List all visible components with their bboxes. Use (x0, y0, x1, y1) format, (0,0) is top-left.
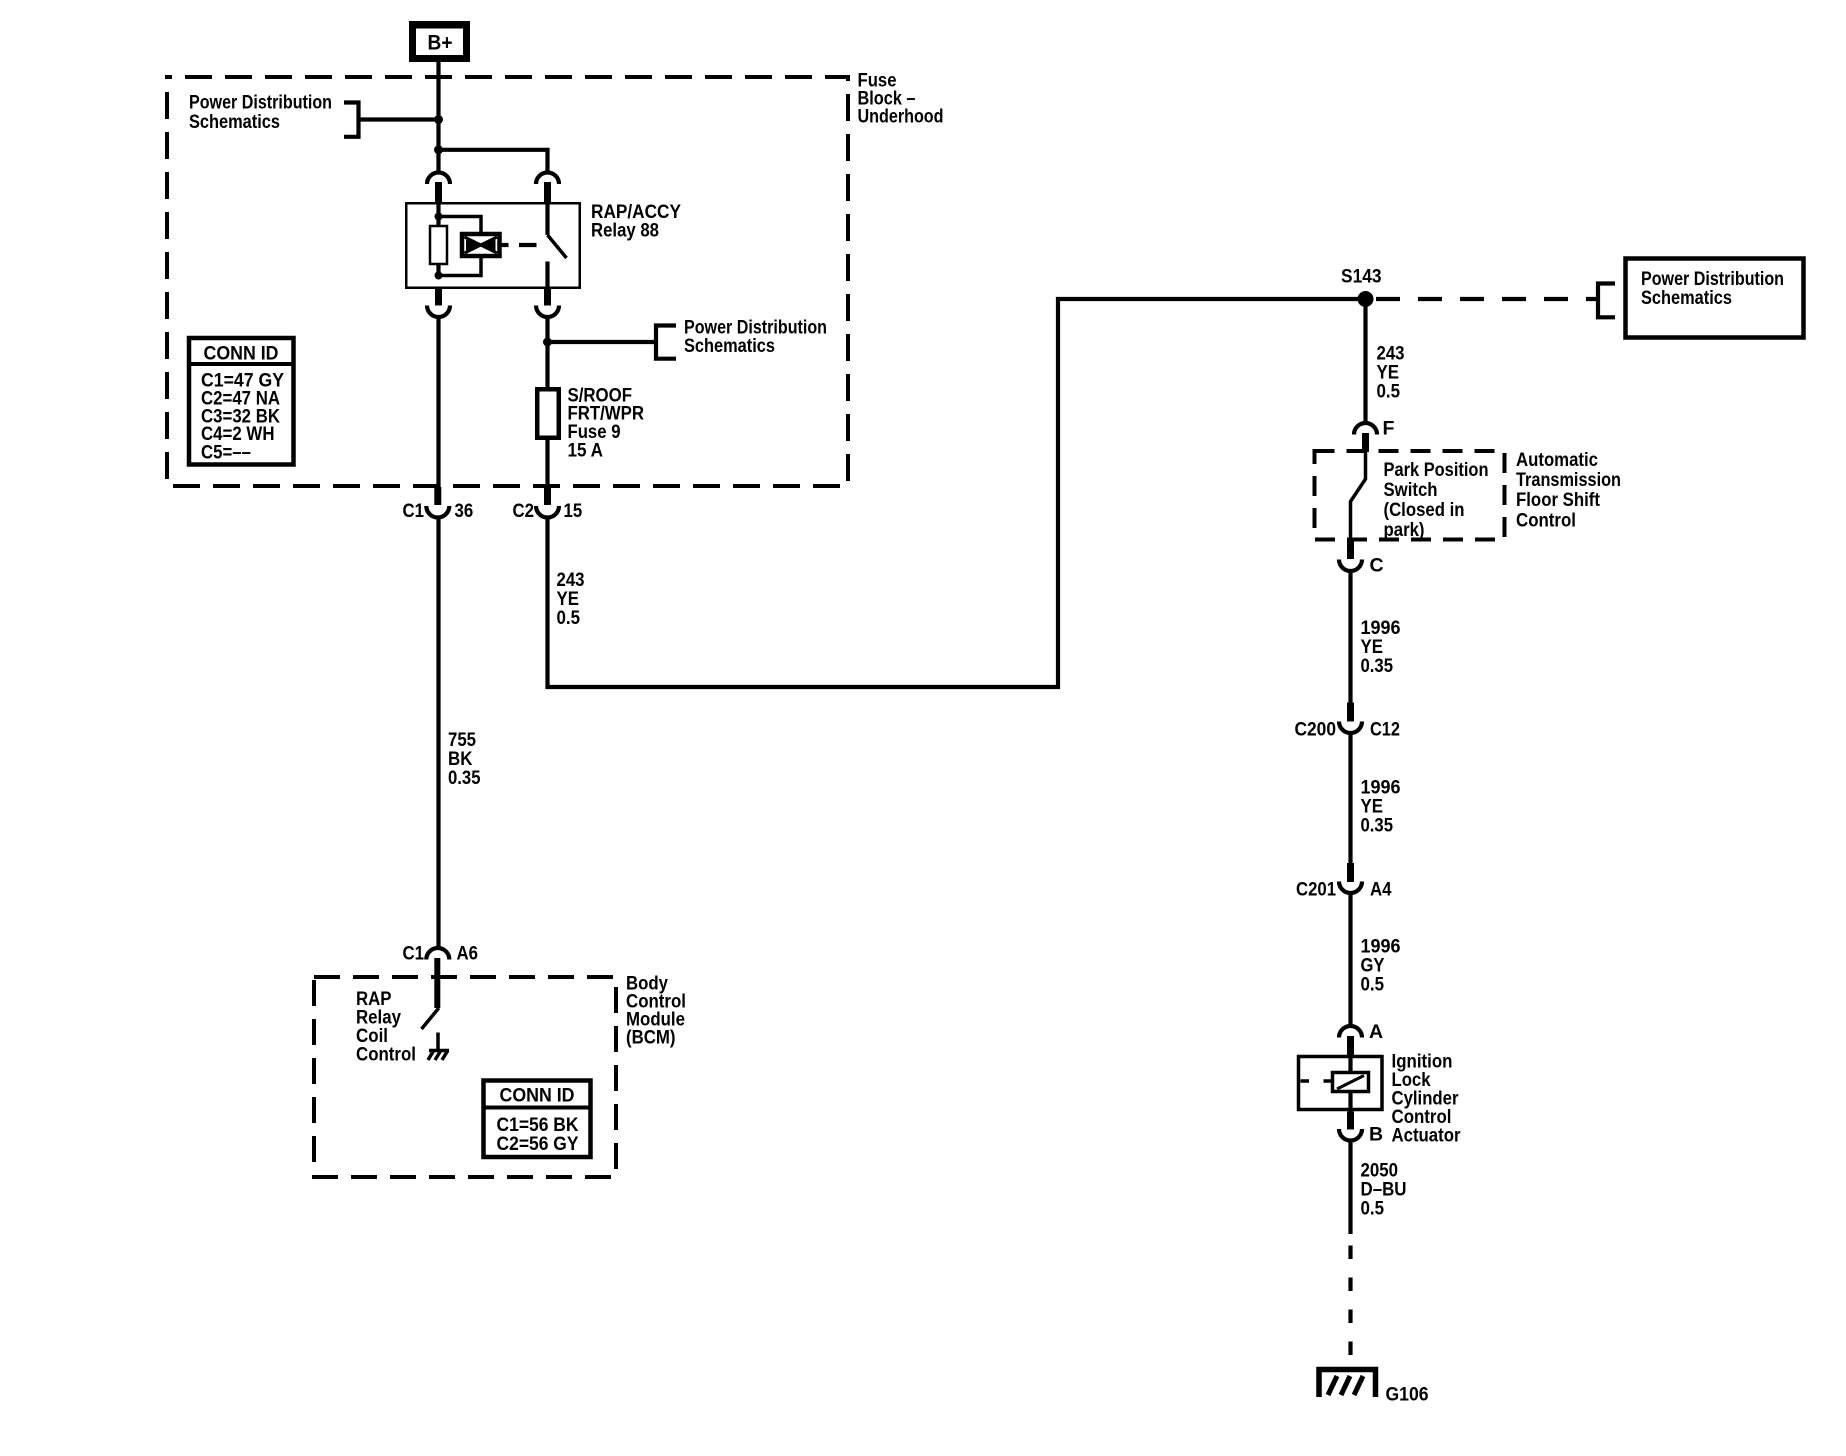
dashed wire to ground G106 (1348, 1246, 1352, 1370)
BCM dashed box (314, 977, 616, 1177)
svg-text:0.5: 0.5 (1361, 1198, 1385, 1220)
label fuse S/ROOF FRT/WPR Fuse 9 15 A (568, 385, 645, 462)
node branch junction (434, 145, 443, 154)
svg-text:F: F (1383, 418, 1395, 440)
connector A (1339, 1021, 1383, 1056)
svg-text:Relay 88: Relay 88 (591, 220, 659, 242)
wire to chassis ground BCM (436, 1033, 440, 1050)
label Park Position Switch (Closed in park) (1384, 459, 1489, 541)
svg-text:Floor Shift: Floor Shift (1516, 489, 1600, 511)
connector F (1354, 418, 1395, 453)
dashed reference wire from S143 (1376, 297, 1597, 301)
svg-text:0.5: 0.5 (1377, 381, 1401, 403)
wire 2050 D-BU below B (1348, 1140, 1352, 1234)
switch BCM rap relay driver blade (422, 1008, 439, 1029)
wire fuse to C2 (545, 440, 549, 488)
label wire 1996 YE 0.35 (upper) (1361, 617, 1401, 677)
label Fuse Block - Underhood (858, 70, 944, 128)
fuse block underhood dashed box (167, 77, 848, 486)
svg-text:C5=––: C5=–– (201, 442, 251, 464)
svg-text:A: A (1369, 1021, 1383, 1043)
wire C200 to C201 (1348, 733, 1352, 864)
switch relay contact (548, 202, 567, 289)
reference bracket Power Distribution Schematics (top left) (344, 103, 359, 137)
connector B (1339, 1112, 1383, 1146)
label wire 243 YE 0.5 (right) (1377, 343, 1405, 403)
label wire 1996 YE 0.35 (lower) (1361, 777, 1401, 837)
connector C2 pin 15 (513, 487, 583, 522)
svg-text:Transmission: Transmission (1516, 469, 1621, 491)
svg-text:0.5: 0.5 (557, 607, 581, 629)
svg-text:0.5: 0.5 (1361, 974, 1385, 996)
svg-text:Automatic: Automatic (1516, 449, 1598, 471)
reference bracket Power Distribution Schematics (mid) (656, 326, 676, 359)
node coil bottom junction (435, 272, 443, 280)
svg-text:Actuator: Actuator (1392, 1125, 1461, 1147)
label Body Control Module (BCM) (626, 973, 686, 1049)
wire C201 to actuator (1348, 893, 1352, 1026)
svg-text:C: C (1370, 555, 1384, 577)
svg-text:Control: Control (356, 1044, 416, 1066)
label Power Distribution Schematics (top left) (189, 92, 332, 134)
svg-text:B+: B+ (428, 32, 453, 55)
svg-text:0.35: 0.35 (1361, 815, 1394, 837)
connector C1 pin A6 (403, 943, 479, 1009)
reference bracket Power Distribution Schematics (right) (1598, 284, 1615, 318)
wire branch to relay pin 2 (439, 150, 548, 172)
svg-text:C2=56 GY: C2=56 GY (497, 1133, 579, 1155)
svg-text:Schematics: Schematics (1641, 287, 1732, 309)
ground chassis BCM (428, 1051, 449, 1061)
svg-text:C12: C12 (1370, 719, 1400, 741)
label wire 243 YE 0.5 (left) (557, 569, 585, 629)
wire C down to C200 (1348, 570, 1352, 704)
svg-text:B: B (1369, 1124, 1383, 1146)
wire relay pin1 to C1 (436, 316, 440, 488)
svg-text:(Closed in: (Closed in (1384, 499, 1465, 521)
connector arc relay pin 1 bottom (427, 289, 450, 317)
connector C200 pin C12 (1295, 703, 1401, 741)
svg-text:C2: C2 (513, 500, 535, 522)
svg-text:S143: S143 (1341, 266, 1382, 288)
label RAP Relay Coil Control (356, 988, 416, 1066)
dashed actuation link relay (519, 243, 537, 247)
connector arc relay pin 2 top (536, 173, 559, 203)
svg-text:CONN ID: CONN ID (204, 343, 279, 365)
fuse S/ROOF FRT/WPR Fuse 9 (537, 389, 559, 438)
ground G106 (1319, 1370, 1376, 1398)
svg-text:0.35: 0.35 (1361, 655, 1394, 677)
wire actuator internal top (1348, 1055, 1352, 1073)
relay RAP/ACCY Relay 88 box (406, 203, 580, 288)
box Power Distribution Schematics (right) (1626, 259, 1804, 338)
label RAP/ACCY Relay 88 (591, 201, 681, 242)
wire bracket to B+ feed (359, 117, 439, 121)
CONN ID table fuse block (189, 338, 294, 465)
svg-text:Control: Control (1516, 510, 1576, 532)
wire S143 down to F (1363, 299, 1367, 423)
svg-text:CONN ID: CONN ID (500, 1085, 575, 1107)
svg-text:0.35: 0.35 (448, 767, 481, 789)
label wire 2050 D-BU 0.5 (1361, 1160, 1407, 1220)
box automatic transmission floor shift control dashed (1315, 451, 1505, 540)
actuator ignition lock cylinder control box (1299, 1057, 1383, 1110)
svg-text:36: 36 (455, 500, 474, 522)
svg-text:Schematics: Schematics (189, 111, 280, 133)
switch park position blade (1351, 452, 1366, 540)
svg-text:C200: C200 (1295, 719, 1337, 741)
svg-text:C1: C1 (403, 943, 425, 965)
power symbol B+ (409, 21, 470, 62)
node coil top junction (435, 213, 443, 221)
connector C201 pin A4 (1296, 863, 1392, 901)
svg-text:C201: C201 (1296, 879, 1336, 901)
svg-text:Switch: Switch (1384, 479, 1438, 501)
svg-text:C1: C1 (403, 500, 425, 522)
connector C (1339, 540, 1384, 577)
node junction bracket wire (434, 115, 443, 124)
node splice S143 (1358, 291, 1374, 307)
svg-text:15: 15 (564, 500, 583, 522)
dashed actuation link actuator (1301, 1079, 1333, 1083)
wire relay coil top lead (436, 202, 440, 227)
svg-text:(BCM): (BCM) (626, 1027, 676, 1049)
label wire 755 BK 0.35 (448, 729, 481, 789)
svg-text:Schematics: Schematics (684, 335, 775, 357)
resistor relay suppression (430, 226, 447, 264)
wire coil parallel loop bottom (439, 254, 482, 276)
connector C1 pin 36 (403, 487, 474, 522)
wire resistor bottom lead (436, 264, 440, 276)
label Power Distribution Schematics (right) (1641, 268, 1784, 309)
svg-text:Underhood: Underhood (858, 106, 944, 128)
label Automatic Transmission Floor Shift Control (1516, 449, 1621, 532)
wire relay pin2 to fuse (545, 316, 549, 388)
svg-text:A4: A4 (1370, 879, 1392, 901)
svg-text:15 A: 15 A (568, 440, 604, 462)
label wire 1996 GY 0.5 (1361, 936, 1401, 996)
wire 243 YE run from C2 to S143 (548, 299, 1365, 687)
wire coil to actuation dash (499, 243, 509, 247)
wire 755 BK C1 to BCM (436, 517, 440, 948)
CONN ID table BCM (484, 1081, 591, 1158)
solenoid symbol (1333, 1073, 1369, 1092)
svg-text:Park Position: Park Position (1384, 459, 1489, 481)
node fuse feed junction (543, 338, 552, 347)
svg-text:park): park) (1384, 519, 1425, 541)
svg-text:A6: A6 (457, 943, 479, 965)
connector arc relay pin 1 top (427, 173, 450, 203)
wire to mid reference bracket (548, 340, 657, 344)
wire coil parallel loop top (439, 217, 482, 237)
relay coil winding symbol (462, 234, 500, 256)
wire actuator internal bottom (1348, 1092, 1352, 1112)
label Ignition Lock Cylinder Control Actuator (1392, 1051, 1461, 1147)
connector arc relay pin 2 bottom (536, 289, 559, 317)
label Power Distribution Schematics (mid) (684, 317, 827, 358)
wire B+ feed down (436, 62, 440, 172)
svg-text:G106: G106 (1386, 1384, 1429, 1406)
